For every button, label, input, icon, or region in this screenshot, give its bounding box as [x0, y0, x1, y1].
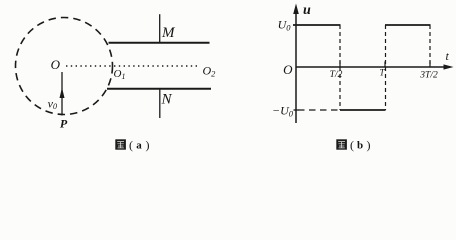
- svg-text:U0: U0: [278, 18, 292, 33]
- tick T/2: [339, 62, 341, 68]
- plate M (top plate): [109, 42, 210, 44]
- svg-text:): ): [367, 138, 371, 152]
- dashed circle (particle path): [16, 18, 113, 115]
- tick -U0 on axis: [294, 109, 299, 111]
- y axis: [295, 8, 297, 123]
- wire: lead to plate N: [159, 89, 161, 118]
- wire: lead to plate M: [159, 14, 161, 43]
- svg-text:v0: v0: [48, 97, 57, 112]
- x axis arrowhead: [444, 64, 454, 69]
- dashed rise at T: [385, 25, 387, 110]
- tick T: [384, 62, 386, 68]
- waveform solid segment 0 to T/2 at +U0: [293, 24, 341, 26]
- svg-text:O: O: [51, 57, 61, 72]
- caption 图(b) drawn glyph: [336, 139, 347, 149]
- svg-text:O2: O2: [203, 64, 217, 79]
- svg-text:a: a: [136, 140, 142, 152]
- dashed -U0 level 0 to T/2: [298, 109, 340, 111]
- dotted axis line O to O2: [66, 65, 200, 67]
- svg-text:(: (: [350, 138, 354, 152]
- plate N (bottom plate): [107, 88, 211, 90]
- wire: radius OP: [61, 72, 63, 116]
- svg-text:t: t: [446, 49, 450, 63]
- waveform solid segment T to 3T/2 at +U0: [385, 24, 431, 26]
- svg-text:P: P: [60, 117, 68, 131]
- svg-text:): ): [146, 138, 150, 152]
- caption 图(a) drawn glyph: [115, 139, 126, 149]
- svg-text:N: N: [161, 92, 173, 108]
- svg-text:O: O: [283, 62, 293, 77]
- svg-text:M: M: [161, 25, 176, 41]
- dashed drop at T/2: [339, 25, 341, 110]
- x axis: [296, 66, 448, 68]
- svg-text:(: (: [129, 138, 133, 152]
- svg-text:3T/2: 3T/2: [419, 71, 438, 81]
- y axis arrowhead: [293, 4, 299, 15]
- svg-text:−U0: −U0: [272, 104, 294, 119]
- svg-text:u: u: [303, 3, 311, 18]
- svg-text:O1: O1: [114, 68, 126, 81]
- tick 3T/2: [429, 62, 431, 68]
- waveform solid segment T/2 to T at -U0: [340, 109, 386, 111]
- svg-text:T/2: T/2: [330, 70, 343, 80]
- arrowhead of v0 velocity vector: [60, 88, 65, 99]
- svg-text:T: T: [379, 68, 385, 78]
- svg-text:b: b: [357, 140, 363, 152]
- dashed drop at 3T/2: [429, 25, 431, 67]
